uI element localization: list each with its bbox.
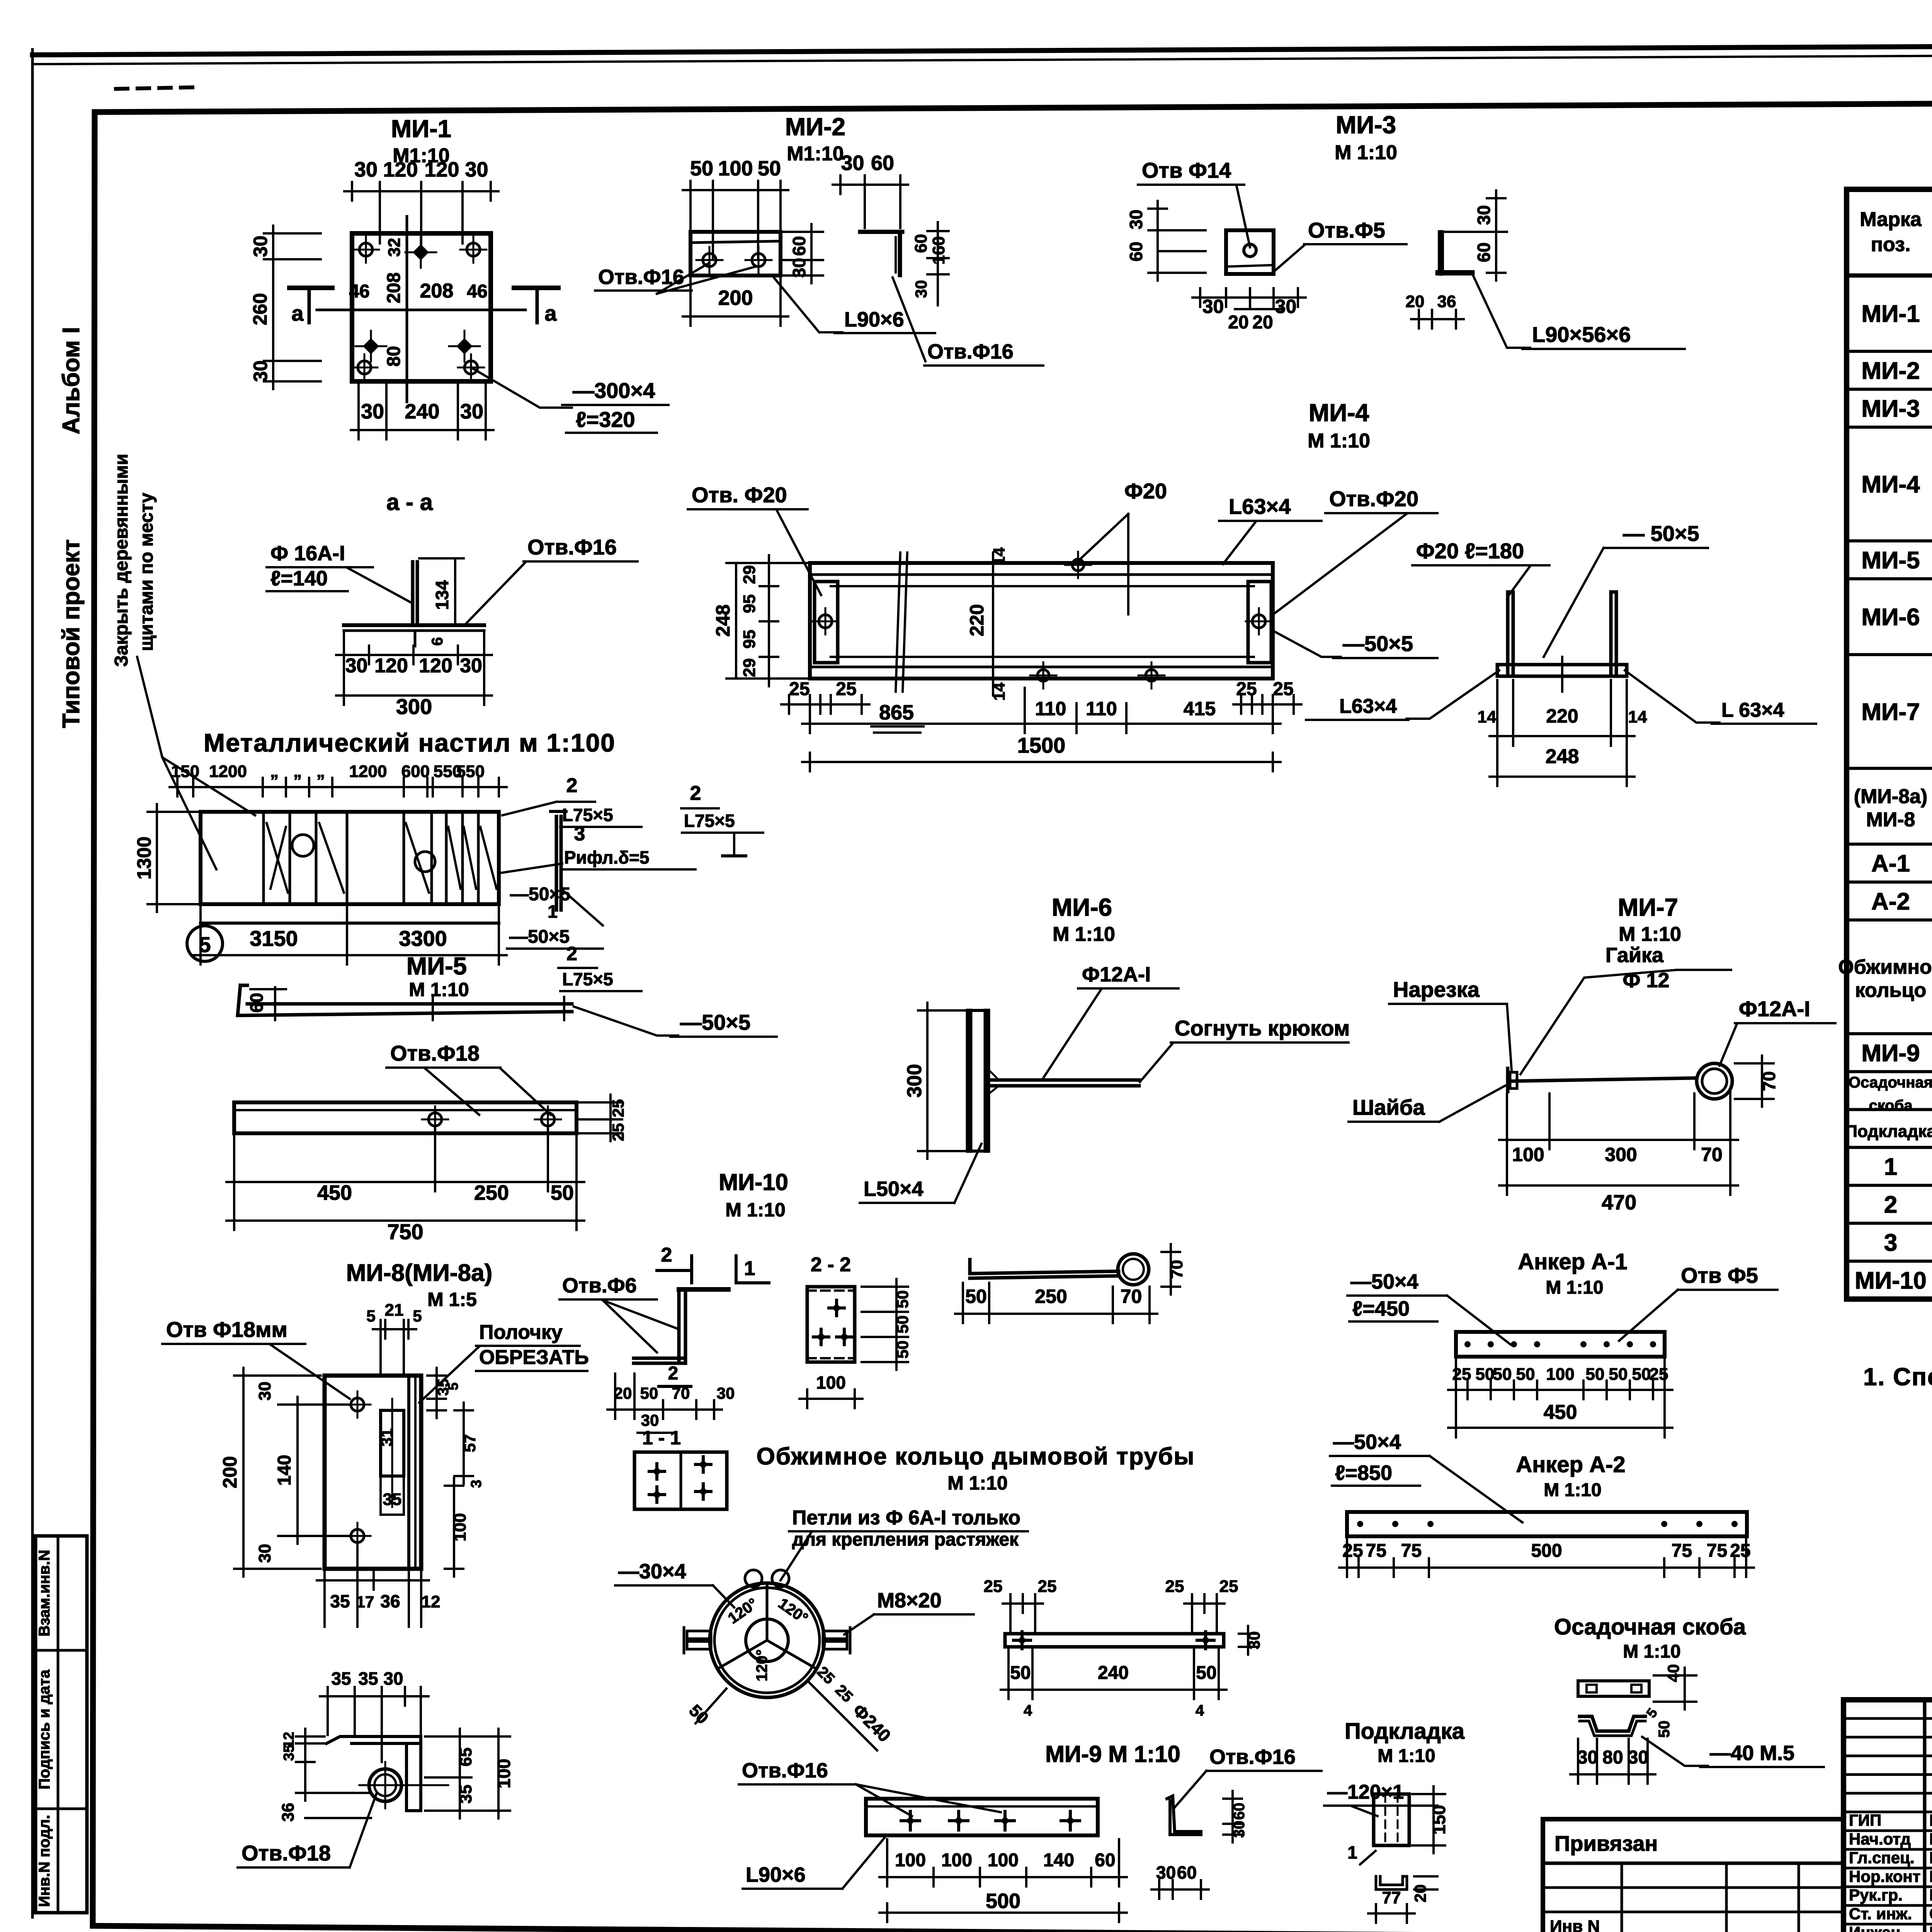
ring bar top dims 25 25 right xyxy=(1184,1602,1225,1605)
svg-text:Рифл.δ=5: Рифл.δ=5 xyxy=(564,847,649,867)
svg-text:35: 35 xyxy=(330,1591,350,1611)
svg-text:40: 40 xyxy=(1664,1664,1682,1682)
svg-text:30: 30 xyxy=(641,1411,659,1429)
svg-text:М1:10: М1:10 xyxy=(787,143,844,165)
svg-text:ℓ=850: ℓ=850 xyxy=(1335,1461,1392,1485)
svg-text:250: 250 xyxy=(1035,1286,1067,1307)
svg-text:260: 260 xyxy=(249,293,271,325)
dashed mark top-left xyxy=(116,87,193,89)
svg-text:МИ-8(МИ-8а): МИ-8(МИ-8а) xyxy=(346,1260,492,1286)
МИ-2 bottom dim 200 xyxy=(683,315,788,318)
svg-text:ℓ=450: ℓ=450 xyxy=(1352,1297,1410,1320)
МИ-2 top dim 50 100 50 xyxy=(683,189,788,191)
svg-text:20: 20 xyxy=(614,1384,632,1402)
svg-text:L 63×4: L 63×4 xyxy=(1721,699,1784,721)
svg-text:20: 20 xyxy=(1228,312,1248,333)
svg-text:50: 50 xyxy=(965,1286,987,1307)
svg-text:1200: 1200 xyxy=(209,762,247,781)
svg-text:25: 25 xyxy=(789,679,810,699)
svg-text:ГИП: ГИП xyxy=(1849,1811,1881,1829)
МИ-3 hole circle xyxy=(1244,244,1256,257)
svg-text:Ф20 ℓ=180: Ф20 ℓ=180 xyxy=(1416,539,1524,563)
svg-text:М 1:10: М 1:10 xyxy=(1623,1641,1680,1662)
МИ-10 2-2 right dims 50 50 50 xyxy=(895,1279,898,1370)
ring bar bottom dims 50 240 50 xyxy=(1001,1689,1226,1691)
МИ-2 holes xyxy=(703,253,716,267)
svg-text:4: 4 xyxy=(1024,1702,1032,1719)
svg-text:36: 36 xyxy=(1437,292,1456,311)
svg-text:450: 450 xyxy=(1544,1401,1577,1423)
svg-text:2: 2 xyxy=(668,1363,679,1384)
svg-text:470: 470 xyxy=(1602,1191,1636,1214)
svg-text:35: 35 xyxy=(383,1490,402,1509)
svg-text:Подкладка: Подкладка xyxy=(1345,1719,1465,1744)
svg-text:30: 30 xyxy=(255,1544,274,1563)
ring lug right xyxy=(823,1631,847,1639)
svg-text:Ф 16А-I: Ф 16А-I xyxy=(270,542,345,565)
svg-text:3: 3 xyxy=(574,823,585,845)
svg-text:ℓ=320: ℓ=320 xyxy=(576,407,635,432)
svg-text:L75×5: L75×5 xyxy=(684,811,735,831)
МИ-1 center line horizontal xyxy=(317,309,526,311)
svg-text:25: 25 xyxy=(1342,1541,1363,1561)
svg-text:60: 60 xyxy=(912,234,930,253)
svg-text:120°: 120° xyxy=(753,1650,770,1682)
svg-text:Гл.спец.: Гл.спец. xyxy=(1849,1849,1915,1867)
svg-text:134: 134 xyxy=(432,580,452,610)
svg-text:Анкер А-2: Анкер А-2 xyxy=(1516,1452,1625,1477)
svg-text:Инв.N подл.: Инв.N подл. xyxy=(36,1815,53,1907)
svg-text:М 1:10: М 1:10 xyxy=(1378,1746,1435,1766)
а-а rod xyxy=(411,562,415,625)
svg-text:А-2: А-2 xyxy=(1871,888,1910,915)
МИ-1 top dimension 30 120 120 30 xyxy=(344,190,498,192)
svg-text:29: 29 xyxy=(740,658,759,677)
svg-text:100: 100 xyxy=(718,157,753,180)
svg-text:Закрыть деревянными: Закрыть деревянными xyxy=(111,454,132,667)
svg-text:30: 30 xyxy=(912,280,930,298)
svg-text:80: 80 xyxy=(1602,1747,1623,1768)
deck axis circle 5 xyxy=(187,926,223,961)
svg-text:120: 120 xyxy=(419,655,452,677)
svg-text:550: 550 xyxy=(456,762,485,781)
svg-text:Отв.Ф20: Отв.Ф20 xyxy=(1329,486,1418,511)
МИ-9 angle vdims 60 30 xyxy=(1231,1791,1234,1842)
svg-text:70: 70 xyxy=(672,1384,690,1402)
svg-text:L90×6: L90×6 xyxy=(746,1863,806,1886)
svg-text:75: 75 xyxy=(1366,1541,1386,1561)
а-а dim 300 xyxy=(336,694,492,697)
svg-text:20: 20 xyxy=(1406,292,1425,311)
svg-text:140: 140 xyxy=(1043,1850,1074,1871)
МИ-8 top dim 5 21 5 xyxy=(373,1328,416,1330)
svg-text:—50×5: —50×5 xyxy=(509,927,570,947)
svg-text:—50×5: —50×5 xyxy=(680,1010,750,1034)
svg-text:3: 3 xyxy=(468,1480,485,1488)
МИ-2 label Отв Ф16 right xyxy=(893,277,925,361)
svg-text:Иванов Ю.И.: Иванов Ю.И. xyxy=(1929,1867,1932,1885)
МИ-8 right dims 35 5 57 3 100 xyxy=(435,1368,438,1418)
svg-text:300: 300 xyxy=(396,694,432,719)
МИ-8 bracket hole xyxy=(369,1769,401,1801)
svg-text:МИ-7: МИ-7 xyxy=(1861,699,1920,725)
svg-text:МИ-4: МИ-4 xyxy=(1309,399,1369,427)
svg-text:35: 35 xyxy=(281,1745,297,1761)
МИ-5 plate holes xyxy=(429,1113,442,1126)
sheet top border thick line xyxy=(32,43,1932,55)
МИ-3 left dims 30 60 xyxy=(1156,201,1159,281)
svg-text:30: 30 xyxy=(1577,1747,1598,1768)
svg-text:М 1:10: М 1:10 xyxy=(1619,923,1681,946)
МИ-8 plate body xyxy=(325,1376,421,1569)
svg-text:Сергунова: Сергунова xyxy=(1929,1905,1932,1923)
svg-text:МИ-6: МИ-6 xyxy=(1052,893,1112,921)
МИ-3 bottom dims 30 20 20 30 xyxy=(1192,296,1306,299)
svg-text:Подкладка: Подкладка xyxy=(1845,1122,1932,1141)
svg-text:14: 14 xyxy=(1628,707,1647,726)
svg-text:95: 95 xyxy=(740,630,759,649)
МИ-4 callout -50x5 right xyxy=(1271,630,1341,657)
svg-text:а - а: а - а xyxy=(386,489,433,515)
ring lug left xyxy=(687,1631,711,1639)
svg-text:Типовой проект: Типовой проект xyxy=(58,539,85,728)
svg-text:2: 2 xyxy=(566,774,578,797)
svg-text:140: 140 xyxy=(274,1455,295,1486)
svg-text:30: 30 xyxy=(1202,296,1224,317)
подкладка channel below xyxy=(1376,1876,1407,1889)
svg-text:30: 30 xyxy=(1156,1862,1176,1883)
svg-text:МИ-2: МИ-2 xyxy=(1861,357,1920,384)
svg-text:L63×4: L63×4 xyxy=(1339,695,1397,718)
svg-text:77: 77 xyxy=(1382,1888,1401,1907)
drawing frame left xyxy=(93,112,95,1926)
svg-text:Ф12А-I: Ф12А-I xyxy=(1739,997,1810,1021)
svg-text:160: 160 xyxy=(929,236,948,264)
svg-text:—300×4: —300×4 xyxy=(573,378,655,403)
svg-text:Привязан: Привязан xyxy=(1554,1831,1658,1855)
svg-text:300: 300 xyxy=(1605,1144,1637,1165)
svg-text:240: 240 xyxy=(1098,1663,1129,1683)
svg-text:50: 50 xyxy=(690,157,713,180)
МИ-7 rod xyxy=(1511,1078,1694,1081)
svg-text:30: 30 xyxy=(1126,209,1146,229)
drawing frame bottom xyxy=(93,1926,1932,1932)
МИ-8 slot xyxy=(381,1410,404,1476)
deck grid body xyxy=(201,812,499,904)
МИ-10 side view vdim 70 xyxy=(1170,1244,1172,1294)
МИ-2 angle right vdims xyxy=(937,222,939,305)
МИ-4 bottom dims 25 25 pairs xyxy=(781,703,869,706)
svg-text:Обжимное: Обжимное xyxy=(1838,956,1932,978)
svg-text:Иванов Н.Г.: Иванов Н.Г. xyxy=(1929,1830,1932,1848)
svg-text:30: 30 xyxy=(361,400,384,423)
svg-text:М 1:10: М 1:10 xyxy=(947,1472,1008,1494)
скоба dim 40 xyxy=(1684,1668,1686,1709)
svg-text:1: 1 xyxy=(548,901,558,922)
svg-text:М 1:10: М 1:10 xyxy=(725,1199,786,1221)
МИ-1 bottom dim 30 240 30 xyxy=(351,429,493,431)
svg-text:—50×4: —50×4 xyxy=(1350,1270,1418,1293)
svg-text:МИ-9 М 1:10: МИ-9 М 1:10 xyxy=(1045,1741,1180,1767)
svg-text:Отв.Ф16: Отв.Ф16 xyxy=(742,1759,828,1782)
svg-text:80: 80 xyxy=(384,346,404,366)
svg-text:„: „ xyxy=(316,762,325,781)
МИ-1 section mark a left xyxy=(289,286,332,290)
svg-text:МИ-5: МИ-5 xyxy=(1861,547,1920,574)
МИ-4 end plates xyxy=(815,582,838,663)
svg-text:Инжен.: Инжен. xyxy=(1849,1923,1905,1932)
svg-text:70: 70 xyxy=(1701,1144,1723,1165)
svg-text:60: 60 xyxy=(1231,1803,1248,1820)
svg-text:30: 30 xyxy=(465,158,488,181)
svg-text:100: 100 xyxy=(941,1850,972,1871)
svg-text:300: 300 xyxy=(903,1064,926,1098)
svg-text:2: 2 xyxy=(566,943,577,964)
spec table outer frame xyxy=(1847,189,1932,1299)
title block left column lines xyxy=(1923,1700,1927,1932)
МИ-1 plate xyxy=(352,233,491,381)
svg-text:25: 25 xyxy=(984,1577,1003,1596)
svg-text:100: 100 xyxy=(1512,1144,1544,1165)
МИ-7 dim 470 xyxy=(1499,1184,1738,1187)
svg-text:МИ-10: МИ-10 xyxy=(719,1169,788,1195)
А-2 plate xyxy=(1347,1512,1747,1536)
svg-text:750: 750 xyxy=(387,1219,423,1244)
svg-text:Осадочная: Осадочная xyxy=(1849,1074,1932,1091)
подкладка plate xyxy=(1374,1794,1409,1845)
svg-text:1. Спецификация на все марки с: 1. Спецификация на все марки см. на л. А… xyxy=(1863,1363,1932,1391)
svg-text:МИ-8: МИ-8 xyxy=(1866,809,1915,831)
svg-text:Металлический настил м 1:100: Металлический настил м 1:100 xyxy=(204,728,616,757)
svg-text:Альбом I: Альбом I xyxy=(58,327,85,434)
svg-text:2: 2 xyxy=(690,782,701,804)
svg-text:5: 5 xyxy=(199,932,211,957)
svg-text:100: 100 xyxy=(494,1759,514,1789)
svg-text:35: 35 xyxy=(358,1668,378,1689)
МИ-1 left dims 30 260 30 xyxy=(272,226,274,389)
а-а plate xyxy=(344,623,484,627)
deck left dim 1300 xyxy=(156,804,158,912)
МИ-9 angle piece xyxy=(1167,1796,1201,1835)
svg-text:Рук.гр.: Рук.гр. xyxy=(1849,1886,1903,1904)
svg-text:5: 5 xyxy=(366,1307,375,1325)
МИ-10 Z profile xyxy=(677,1289,681,1363)
svg-text:50: 50 xyxy=(1516,1365,1535,1384)
svg-text:1: 1 xyxy=(1884,1154,1897,1180)
svg-text:25: 25 xyxy=(1236,679,1257,699)
svg-text:30: 30 xyxy=(1628,1747,1648,1768)
svg-text:Ст. инж.: Ст. инж. xyxy=(1849,1905,1912,1923)
svg-text:Иващенко: Иващенко xyxy=(1929,1923,1932,1932)
ring bar right vdim 30 xyxy=(1247,1626,1249,1655)
svg-text:36: 36 xyxy=(279,1803,298,1822)
svg-text:ℓ=140: ℓ=140 xyxy=(270,567,328,590)
svg-text:70: 70 xyxy=(1167,1260,1186,1279)
svg-text:Отв.Ф5: Отв.Ф5 xyxy=(1308,218,1385,242)
svg-text:М 1:10: М 1:10 xyxy=(1546,1277,1603,1298)
svg-text:МИ-5: МИ-5 xyxy=(406,952,467,980)
leader from note to deck xyxy=(137,657,255,815)
svg-text:2: 2 xyxy=(1884,1192,1897,1218)
svg-text:110: 110 xyxy=(1035,698,1066,719)
svg-text:L75×5: L75×5 xyxy=(562,805,613,825)
svg-text:2: 2 xyxy=(661,1244,672,1266)
МИ-9 angle dims 30 60 xyxy=(1151,1888,1209,1891)
svg-text:50: 50 xyxy=(640,1384,658,1402)
svg-text:120: 120 xyxy=(424,158,459,181)
svg-text:—50×5: —50×5 xyxy=(510,884,570,905)
svg-text:5: 5 xyxy=(413,1307,422,1325)
МИ-2 callout L90x6 xyxy=(773,276,842,332)
svg-text:95: 95 xyxy=(740,594,759,613)
svg-text:L75×5: L75×5 xyxy=(562,969,613,989)
svg-text:—50×4: —50×4 xyxy=(1333,1430,1401,1454)
МИ-5 strip tick marks xyxy=(432,997,434,1020)
svg-text:Отв.Ф16: Отв.Ф16 xyxy=(927,340,1014,363)
svg-text:60: 60 xyxy=(1177,1862,1197,1883)
svg-text:30: 30 xyxy=(354,158,378,181)
svg-text:„: „ xyxy=(270,762,279,781)
svg-text:50: 50 xyxy=(551,1181,574,1204)
svg-text:М 1:5: М 1:5 xyxy=(427,1289,477,1310)
svg-text:М 1:10: М 1:10 xyxy=(1335,141,1397,164)
svg-text:Петли из Ф 6А-I только: Петли из Ф 6А-I только xyxy=(792,1507,1020,1529)
svg-text:—40 М.5: —40 М.5 xyxy=(1710,1742,1794,1765)
deck bottom dims 3150 3300 xyxy=(193,954,507,956)
МИ-2 angle top dim 30 60 xyxy=(833,184,908,186)
МИ-7 dims 100 300 70 xyxy=(1499,1139,1738,1141)
svg-text:—30×4: —30×4 xyxy=(618,1560,686,1583)
svg-text:50: 50 xyxy=(893,1290,912,1308)
svg-text:46: 46 xyxy=(467,281,487,302)
svg-text:75: 75 xyxy=(1672,1541,1692,1561)
МИ-5 lower plate xyxy=(234,1102,577,1133)
svg-text:30: 30 xyxy=(250,236,271,257)
svg-text:100: 100 xyxy=(895,1850,926,1871)
deck hatch symbols xyxy=(267,823,288,893)
svg-text:14: 14 xyxy=(1478,707,1497,726)
МИ-1 section cut line vertical xyxy=(406,216,408,402)
ring bar top dims 25 25 left xyxy=(1003,1602,1043,1605)
svg-text:20: 20 xyxy=(1252,312,1273,333)
svg-text:3: 3 xyxy=(1884,1230,1897,1256)
МИ-3 angle xyxy=(1437,232,1473,274)
svg-text:30: 30 xyxy=(1275,296,1297,317)
svg-text:Нач.отд: Нач.отд xyxy=(1849,1830,1911,1848)
svg-text:М 1:10: М 1:10 xyxy=(409,979,469,1000)
deck bottom line xyxy=(201,922,499,925)
ring dim Ф240 diagonal xyxy=(808,1681,877,1750)
svg-text:щитами по месту: щитами по месту xyxy=(136,493,157,651)
svg-text:60: 60 xyxy=(247,993,267,1012)
svg-text:Инв N: Инв N xyxy=(1550,1917,1600,1932)
svg-text:200: 200 xyxy=(718,286,753,310)
svg-text:Отв Ф5: Отв Ф5 xyxy=(1681,1263,1758,1287)
МИ-5 callout -50x5 top xyxy=(574,1007,678,1036)
svg-text:1500: 1500 xyxy=(1017,733,1066,757)
svg-text:М 1:10: М 1:10 xyxy=(1544,1480,1601,1500)
svg-text:Подпись и дата: Подпись и дата xyxy=(36,1669,53,1789)
МИ-2 right vdim 60 30 xyxy=(810,224,813,283)
svg-text:кольцо: кольцо xyxy=(1855,979,1927,1002)
svg-text:1: 1 xyxy=(1347,1842,1357,1862)
svg-text:МИ-9: МИ-9 xyxy=(1861,1040,1920,1066)
svg-text:30: 30 xyxy=(250,361,271,382)
svg-text:30: 30 xyxy=(717,1384,735,1402)
МИ-8 holes xyxy=(351,1398,364,1411)
svg-text:Нор.конт: Нор.конт xyxy=(1849,1867,1920,1885)
svg-text:208: 208 xyxy=(420,280,454,302)
привязан grid xyxy=(1543,1886,1844,1889)
svg-text:25: 25 xyxy=(1038,1577,1057,1596)
svg-text:МИ-6: МИ-6 xyxy=(1861,604,1920,631)
svg-text:Отв.Ф18: Отв.Ф18 xyxy=(390,1041,480,1065)
svg-text:Отв.Ф16: Отв.Ф16 xyxy=(527,535,617,559)
svg-text:50: 50 xyxy=(1493,1365,1512,1384)
МИ-6 vertical plate double xyxy=(966,1010,969,1151)
svg-text:12: 12 xyxy=(422,1592,440,1611)
svg-text:МИ-4: МИ-4 xyxy=(1861,471,1920,498)
svg-text:50: 50 xyxy=(1609,1365,1628,1384)
svg-text:а: а xyxy=(291,301,304,325)
svg-text:30: 30 xyxy=(1245,1631,1263,1650)
svg-text:30: 30 xyxy=(460,400,483,423)
svg-text:МИ-2: МИ-2 xyxy=(785,113,845,141)
svg-text:—120×1: —120×1 xyxy=(1327,1781,1404,1803)
svg-text:Отв Ф14: Отв Ф14 xyxy=(1142,158,1231,182)
svg-text:100: 100 xyxy=(816,1372,846,1393)
svg-text:60: 60 xyxy=(1126,241,1146,261)
svg-text:25: 25 xyxy=(1165,1577,1184,1596)
svg-text:208: 208 xyxy=(384,272,404,303)
svg-text:6: 6 xyxy=(429,637,446,646)
svg-text:450: 450 xyxy=(317,1181,352,1204)
drawing frame top xyxy=(95,100,1932,112)
svg-text:Отв. Ф20: Отв. Ф20 xyxy=(692,483,787,507)
МИ-4 holes xyxy=(819,615,832,628)
svg-text:60: 60 xyxy=(789,236,809,256)
МИ-4 bottom dim line 865 110 110 415 xyxy=(802,723,1281,725)
МИ-6 rod xyxy=(988,1078,1139,1082)
svg-text:20: 20 xyxy=(1411,1884,1429,1903)
svg-text:Отв.Ф16: Отв.Ф16 xyxy=(1209,1745,1296,1769)
svg-text:60: 60 xyxy=(1095,1850,1115,1871)
МИ-4 left dims 29 95 95 29 xyxy=(768,555,770,686)
МИ-10 section mark 1 top xyxy=(735,1256,738,1283)
svg-text:М 1:10: М 1:10 xyxy=(1308,430,1370,452)
МИ-4 break line xyxy=(896,553,900,692)
svg-text:30: 30 xyxy=(383,1668,403,1689)
sheet top border thin line xyxy=(32,53,1932,64)
svg-text:Отв Ф18мм: Отв Ф18мм xyxy=(166,1317,287,1342)
МИ-8 bracket right dims 65 100 35 xyxy=(459,1729,461,1818)
МИ-5 right vdim 25 25 xyxy=(609,1095,612,1141)
svg-text:Иванов Ю.И.: Иванов Ю.И. xyxy=(1929,1849,1932,1867)
svg-text:200: 200 xyxy=(219,1456,241,1488)
svg-text:46: 46 xyxy=(349,281,369,302)
svg-text:— 50×5: — 50×5 xyxy=(1623,521,1699,546)
svg-text:1300: 1300 xyxy=(133,837,155,879)
svg-text:248: 248 xyxy=(1546,745,1579,768)
svg-text:110: 110 xyxy=(1086,698,1117,719)
svg-text:60: 60 xyxy=(1474,242,1494,262)
svg-text:50: 50 xyxy=(893,1315,912,1333)
ring inner circle xyxy=(746,1619,788,1662)
svg-text:150: 150 xyxy=(1429,1805,1449,1835)
МИ-5 dims 450 250 50 xyxy=(226,1181,584,1183)
А-1 dim 450 xyxy=(1448,1427,1672,1429)
svg-text:21: 21 xyxy=(385,1301,404,1320)
